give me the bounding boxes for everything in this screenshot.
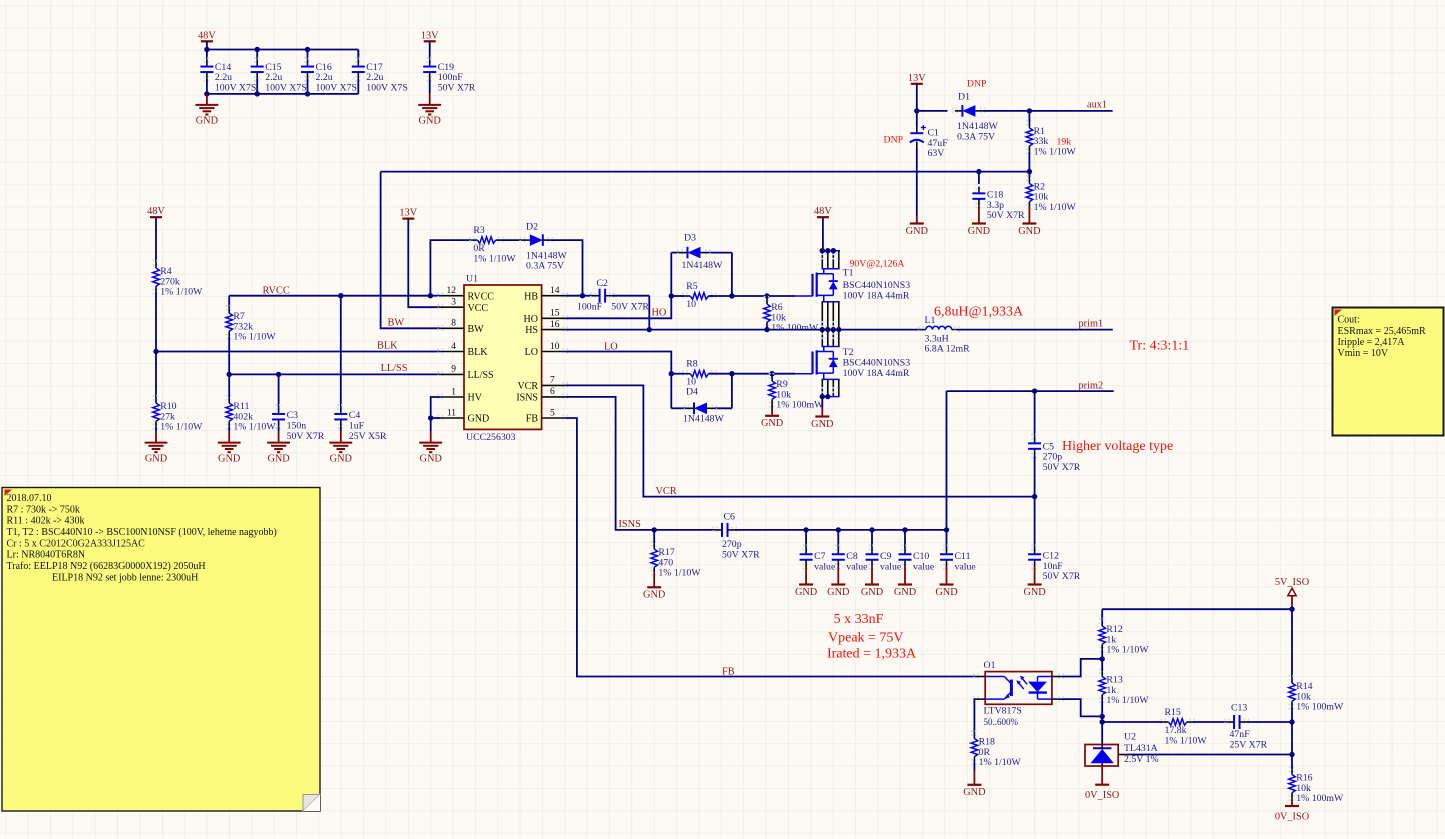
power ground bar GND xyxy=(805,567,807,585)
capacitor C13 xyxy=(1225,719,1229,726)
wire BW long bus xyxy=(381,171,1030,173)
svg-text:1% 1/10W: 1% 1/10W xyxy=(473,254,516,265)
svg-text:value: value xyxy=(814,562,836,573)
wire R12 top xyxy=(1101,609,1103,621)
svg-text:5: 5 xyxy=(550,408,555,418)
junction 5V node xyxy=(1289,607,1294,612)
junction HB node xyxy=(580,293,585,298)
wire C9 top xyxy=(871,530,873,548)
pin 10 LO xyxy=(563,348,567,355)
wire ISNS xyxy=(565,397,715,530)
junction R6/HS node xyxy=(764,327,769,332)
svg-text:HS: HS xyxy=(525,325,538,336)
note (right Cout) xyxy=(1333,308,1444,436)
junction R17 tap xyxy=(652,527,657,532)
svg-text:100V X7S: 100V X7S xyxy=(316,82,357,93)
wire HS long xyxy=(565,329,920,331)
ground (earth) xyxy=(155,432,157,443)
wire 13V to VCC pin xyxy=(408,219,440,308)
svg-text:48V: 48V xyxy=(814,206,832,217)
svg-text:12: 12 xyxy=(447,286,457,296)
stub xyxy=(1291,707,1293,722)
svg-text:value: value xyxy=(913,562,935,573)
wire D3 right riser xyxy=(731,253,733,296)
resistor R12 xyxy=(1099,619,1106,623)
wire D3 left riser xyxy=(670,253,672,296)
junction HV/GND node xyxy=(428,415,433,420)
svg-text:O1: O1 xyxy=(984,660,996,671)
power ground bar GND xyxy=(946,567,948,585)
svg-text:GND: GND xyxy=(968,226,991,237)
pin 11 GND xyxy=(438,415,442,422)
svg-text:VCR: VCR xyxy=(656,486,677,497)
op-amp U1 UCC256303 body xyxy=(464,285,542,429)
svg-text:GND: GND xyxy=(894,587,917,598)
svg-text:GND: GND xyxy=(963,787,986,798)
wire C4 bottom xyxy=(340,426,342,431)
svg-text:16: 16 xyxy=(550,320,560,330)
wire R15 to C13 xyxy=(1192,721,1227,723)
power ground bar GND xyxy=(1028,207,1030,224)
junction R6 tap xyxy=(764,293,769,298)
svg-text:GND: GND xyxy=(420,453,443,464)
junction BLK tap xyxy=(153,349,158,354)
wire R12 bottom xyxy=(1101,650,1103,659)
wire LL/SS xyxy=(229,373,440,375)
svg-text:GND: GND xyxy=(795,587,818,598)
junction R1/R2 node xyxy=(1027,169,1032,174)
svg-text:GND: GND xyxy=(643,590,666,601)
wire C2 to HS riser xyxy=(612,295,649,297)
ground (earth) xyxy=(228,432,230,443)
svg-text:GND: GND xyxy=(145,453,168,464)
svg-text:GND: GND xyxy=(267,453,290,464)
svg-text:D2: D2 xyxy=(526,222,538,233)
resistor R5 xyxy=(683,293,687,300)
svg-text:GND: GND xyxy=(827,587,850,598)
svg-text:R7 : 730k -> 750k: R7 : 730k -> 750k xyxy=(7,504,80,515)
junction opto cathode node xyxy=(1100,714,1105,719)
svg-text:1% 1/10W: 1% 1/10W xyxy=(1165,735,1208,746)
svg-text:GND: GND xyxy=(419,116,442,127)
power ground bar GND xyxy=(871,567,873,585)
svg-text:D4: D4 xyxy=(686,387,698,398)
svg-text:Irated = 1,933A: Irated = 1,933A xyxy=(827,647,917,662)
wire D3 to riser xyxy=(708,252,732,254)
svg-text:GND: GND xyxy=(330,453,353,464)
resistor R3 xyxy=(470,237,474,244)
capacitor C8 xyxy=(835,545,842,549)
svg-text:Higher voltage type: Higher voltage type xyxy=(1062,439,1173,454)
note (left changelog) xyxy=(2,488,320,812)
svg-text:GND: GND xyxy=(1018,226,1041,237)
svg-text:2.5V 1%: 2.5V 1% xyxy=(1124,754,1159,765)
svg-text:C2: C2 xyxy=(597,278,609,289)
svg-text:DNP: DNP xyxy=(967,78,987,89)
svg-text:8: 8 xyxy=(451,319,456,329)
svg-text:10: 10 xyxy=(686,299,696,310)
wire prim1 xyxy=(957,329,1113,331)
junction R9 tap xyxy=(769,371,774,376)
svg-text:VCR: VCR xyxy=(517,381,538,392)
wire C15 bottom lead xyxy=(256,79,258,94)
power port 13V xyxy=(911,83,923,85)
wire to T2 gate xyxy=(732,373,795,375)
junction aux1/R1 node xyxy=(1027,108,1032,113)
wire 13V stem xyxy=(916,84,918,111)
wire 13V to C19 xyxy=(429,41,431,59)
stub xyxy=(771,405,773,408)
resistor R7 xyxy=(226,306,233,310)
wire C13 to divider xyxy=(1246,721,1292,723)
svg-text:13V: 13V xyxy=(421,30,439,41)
svg-text:1% 100mW: 1% 100mW xyxy=(1296,702,1344,713)
svg-text:100V X7S: 100V X7S xyxy=(215,82,256,93)
svg-text:VCC: VCC xyxy=(468,303,489,314)
junction xyxy=(831,248,836,253)
resistor R10 xyxy=(153,396,160,400)
svg-text:LL/SS: LL/SS xyxy=(468,370,494,381)
capacitor C16 xyxy=(304,58,311,62)
svg-text:DNP: DNP xyxy=(884,135,904,146)
junction xyxy=(820,394,825,399)
optocoupler O1 LTV817S xyxy=(985,672,1052,705)
pin 15 HO xyxy=(563,315,567,322)
svg-text:100nF: 100nF xyxy=(577,302,603,313)
junction xyxy=(825,248,830,253)
svg-text:1% 1/10W: 1% 1/10W xyxy=(1106,645,1149,656)
pin 3 VCC xyxy=(438,304,442,311)
junction C4 tap xyxy=(338,293,343,298)
junction gnd bus A xyxy=(204,91,209,96)
svg-text:UCC256303: UCC256303 xyxy=(466,432,516,443)
power ground bar GND xyxy=(837,567,839,585)
wire bottom bus xyxy=(207,93,358,95)
svg-text:FB: FB xyxy=(722,667,735,678)
svg-text:1% 100mW: 1% 100mW xyxy=(771,323,819,334)
wire C1 to GND xyxy=(916,148,918,216)
svg-text:C13: C13 xyxy=(1231,703,1247,714)
wire BLK xyxy=(156,351,440,353)
junction xyxy=(836,527,841,532)
wire HB pin to C2 xyxy=(565,295,593,297)
wire LO xyxy=(565,352,671,374)
svg-text:GND: GND xyxy=(811,419,834,430)
svg-text:13V: 13V xyxy=(399,208,417,219)
svg-text:1% 1/10W: 1% 1/10W xyxy=(1034,202,1077,213)
pin 12 RVCC xyxy=(438,292,442,299)
svg-text:25V X5R: 25V X5R xyxy=(349,431,387,442)
diode D4 xyxy=(684,405,688,412)
junction R3 tap xyxy=(428,293,433,298)
junction R12/R13 node xyxy=(1100,656,1105,661)
svg-text:Iripple = 2,417A: Iripple = 2,417A xyxy=(1338,337,1406,348)
svg-text:50V X7R: 50V X7R xyxy=(287,431,325,442)
junction gate ladder left xyxy=(669,293,674,298)
svg-text:7: 7 xyxy=(550,376,555,386)
wire top bus 48V xyxy=(207,49,358,51)
wire C7 top xyxy=(805,530,807,548)
resistor R4 xyxy=(153,261,160,265)
wire R7 bottom xyxy=(228,337,230,375)
wire R2 top xyxy=(1028,172,1030,179)
inductor L1 xyxy=(919,326,923,333)
wire C16 bottom lead xyxy=(307,79,309,94)
svg-text:6,8uH@1,933A: 6,8uH@1,933A xyxy=(934,304,1024,319)
svg-text:BW: BW xyxy=(388,318,405,329)
junction xyxy=(902,527,907,532)
svg-text:ISNS: ISNS xyxy=(619,519,642,530)
stub xyxy=(771,374,773,376)
wire 48V stem xyxy=(206,41,208,49)
wire R10 to GND xyxy=(155,427,157,432)
resistor R13 xyxy=(1099,669,1106,673)
power ground bar GND xyxy=(1034,567,1036,585)
wire D2 down xyxy=(550,240,582,296)
pin 9 LL/SS xyxy=(438,371,442,378)
resistor R8 xyxy=(683,370,687,377)
junction xyxy=(820,327,825,332)
svg-text:T2: T2 xyxy=(843,347,854,358)
wire HV down xyxy=(431,397,441,418)
svg-text:50V X7R: 50V X7R xyxy=(987,210,1025,221)
svg-text:U2: U2 xyxy=(1124,732,1136,743)
junction xyxy=(836,327,841,332)
pin 4 BLK xyxy=(438,348,442,355)
wire top secondary xyxy=(1102,608,1292,610)
svg-text:BW: BW xyxy=(468,324,485,335)
svg-text:100V 18A 44mR: 100V 18A 44mR xyxy=(843,290,910,301)
svg-text:1: 1 xyxy=(451,387,456,397)
svg-text:D3: D3 xyxy=(684,232,696,243)
capacitor C12 xyxy=(1031,545,1038,549)
svg-text:17.8k: 17.8k xyxy=(1165,725,1187,736)
junction xyxy=(825,394,830,399)
svg-text:EILP18 N92 set jobb lenne: 230: EILP18 N92 set jobb lenne: 2300uH xyxy=(52,572,198,583)
junction xyxy=(803,527,808,532)
wire R1 top xyxy=(1028,111,1030,123)
svg-text:0.3A 75V: 0.3A 75V xyxy=(957,131,995,142)
wire cathode xyxy=(1061,699,1102,716)
svg-text:C6: C6 xyxy=(724,512,736,523)
power ground bar GND xyxy=(978,206,980,224)
capacitor C2 xyxy=(591,292,595,299)
wire D4 to riser xyxy=(715,407,732,409)
stub xyxy=(709,295,732,297)
wire C18 top xyxy=(978,172,980,184)
svg-text:Cr : 5 x C2012C0G2A333J125AC: Cr : 5 x C2012C0G2A333J125AC xyxy=(7,538,146,549)
svg-text:GND: GND xyxy=(196,116,219,127)
power ground bar GND xyxy=(771,408,773,416)
wire R3 left xyxy=(430,240,471,296)
junction ref node xyxy=(1289,752,1294,757)
wire R3-D2 xyxy=(501,239,522,241)
svg-text:GND: GND xyxy=(1023,587,1046,598)
junction gate ladder right xyxy=(729,293,734,298)
svg-text:1% 1/10W: 1% 1/10W xyxy=(233,332,276,343)
junction 13V/D1 node xyxy=(914,108,919,113)
wire HO to gate ladder xyxy=(565,296,671,318)
junction LL/SS left node xyxy=(227,372,232,377)
svg-text:FB: FB xyxy=(526,414,539,425)
svg-text:0R: 0R xyxy=(473,243,485,254)
pin 1 HV xyxy=(438,394,442,401)
pin 7 VCR xyxy=(563,382,567,389)
wire bootstrap vertical xyxy=(648,296,650,330)
wire C16 top lead xyxy=(307,50,309,60)
wire U2 ref xyxy=(1118,754,1127,756)
svg-text:Vpeak = 75V: Vpeak = 75V xyxy=(828,630,904,645)
svg-text:10: 10 xyxy=(550,342,560,352)
capacitor C15 xyxy=(254,58,261,62)
pin 16 HS xyxy=(563,326,567,333)
svg-text:0V_ISO: 0V_ISO xyxy=(1085,790,1120,801)
svg-text:HO: HO xyxy=(652,307,667,318)
svg-text:100V X7S: 100V X7S xyxy=(265,82,306,93)
wire R11 top xyxy=(228,374,230,397)
svg-text:LO: LO xyxy=(525,347,538,358)
capacitor C3 xyxy=(275,405,282,409)
shunt regulator U2 TL431A xyxy=(1085,745,1118,767)
wire R4 to R10 xyxy=(155,292,157,398)
wire to R18 xyxy=(974,699,976,733)
svg-text:1% 1/10W: 1% 1/10W xyxy=(233,422,276,433)
svg-text:48V: 48V xyxy=(147,206,165,217)
power ground bar GND xyxy=(821,408,823,417)
junction R8 left node xyxy=(669,371,674,376)
junction gnd bus C xyxy=(305,91,310,96)
svg-text:14: 14 xyxy=(550,286,560,296)
power port 48V xyxy=(201,40,213,42)
resistor R1 xyxy=(1026,120,1033,124)
svg-text:ISNS: ISNS xyxy=(516,393,538,404)
wire C11 top xyxy=(946,530,948,548)
svg-text:GND: GND xyxy=(935,587,958,598)
svg-text:13V: 13V xyxy=(908,73,926,84)
svg-text:RVCC: RVCC xyxy=(468,291,495,302)
junction C18 tap xyxy=(976,169,981,174)
svg-text:HO: HO xyxy=(524,314,538,325)
pin 5 FB xyxy=(563,415,567,422)
junction xyxy=(825,327,830,332)
diode D2 xyxy=(520,237,524,244)
svg-text:HV: HV xyxy=(468,393,483,404)
ground (earth) xyxy=(429,94,431,105)
wire C1 top xyxy=(916,111,918,127)
wire R1 bottom xyxy=(1028,151,1030,171)
wire RVCC xyxy=(229,295,440,297)
capacitor C9 xyxy=(869,545,876,549)
svg-text:11: 11 xyxy=(447,408,456,418)
svg-text:GND: GND xyxy=(861,587,884,598)
wire C3 top xyxy=(278,374,280,407)
wire to D3 xyxy=(671,252,680,254)
wire C15 top lead xyxy=(256,50,258,60)
wire to T1 gate xyxy=(732,295,795,297)
ground (earth) xyxy=(340,432,342,443)
wire BW vertical to pin 8 xyxy=(381,172,441,329)
svg-text:5 x 33nF: 5 x 33nF xyxy=(834,612,884,627)
power port 13V xyxy=(424,40,436,42)
capacitor C5 xyxy=(1031,435,1038,439)
svg-text:Tr: 4:3:1:1: Tr: 4:3:1:1 xyxy=(1130,339,1190,354)
resistor R6 xyxy=(764,297,771,301)
stub xyxy=(709,373,732,375)
svg-text:25V X7R: 25V X7R xyxy=(1230,740,1268,751)
svg-text:3: 3 xyxy=(451,298,456,308)
svg-text:GND: GND xyxy=(468,414,490,425)
svg-text:R11 : 402k -> 430k: R11 : 402k -> 430k xyxy=(7,516,85,527)
svg-text:1% 1/10W: 1% 1/10W xyxy=(160,287,203,298)
wire T2 source to GND xyxy=(821,397,823,408)
resistor R16 xyxy=(1289,767,1296,771)
resistor R2 xyxy=(1026,176,1033,180)
wire ISNS bus xyxy=(734,529,946,531)
power ground bar GND xyxy=(904,567,906,585)
resistor R14 xyxy=(1289,676,1296,680)
wire R17 top xyxy=(653,530,655,544)
wire R7 top xyxy=(228,296,230,308)
svg-text:prim2: prim2 xyxy=(1079,380,1104,391)
svg-text:1% 1/10W: 1% 1/10W xyxy=(1106,695,1149,706)
svg-text:0.3A 75V: 0.3A 75V xyxy=(526,261,564,272)
wire D4 right riser xyxy=(731,374,733,409)
svg-text:value: value xyxy=(880,562,902,573)
capacitor C19 xyxy=(426,58,433,62)
svg-text:50V X7R: 50V X7R xyxy=(1043,571,1081,582)
svg-text:90V@2,126A: 90V@2,126A xyxy=(850,258,905,269)
capacitor C4 xyxy=(337,405,344,409)
junction xyxy=(831,327,836,332)
svg-text:prim1: prim1 xyxy=(1079,319,1104,330)
wire 48V to T1 drain xyxy=(822,217,824,251)
power port 13V xyxy=(402,218,414,220)
svg-text:100V 18A 44mR: 100V 18A 44mR xyxy=(843,368,910,379)
wire VCR xyxy=(565,385,1034,496)
wire C14 bottom lead xyxy=(206,79,208,94)
resistor R17 xyxy=(651,542,658,546)
svg-text:GND: GND xyxy=(761,418,784,429)
junction VCR/C5/C12 node xyxy=(1032,494,1037,499)
transistor T1 BSC440N10NS3 xyxy=(820,250,840,252)
wire to GND xyxy=(430,418,432,432)
svg-text:50V X7R: 50V X7R xyxy=(722,550,760,561)
wire prim2 vertical xyxy=(946,391,948,530)
junction HS/C2 node xyxy=(647,327,652,332)
wire 13V to D1 xyxy=(917,110,948,112)
junction 48V bus B xyxy=(255,47,260,52)
wire to R14 xyxy=(1291,609,1293,678)
svg-text:Cout:: Cout: xyxy=(1338,315,1360,326)
wire C12 top xyxy=(1034,497,1036,548)
junction xyxy=(820,248,825,253)
junction R15 node xyxy=(1100,719,1105,724)
wire C17 bottom lead xyxy=(357,79,359,94)
wire R13 to U2 xyxy=(1101,700,1103,744)
svg-text:50V X7R: 50V X7R xyxy=(611,302,649,313)
power ground bar GND xyxy=(653,573,655,588)
wire C8 top xyxy=(837,530,839,548)
wire to R15 xyxy=(1102,721,1163,723)
svg-text:LL/SS: LL/SS xyxy=(381,363,408,374)
svg-text:2018.07.10: 2018.07.10 xyxy=(7,493,52,504)
resistor R9 xyxy=(769,374,776,378)
resistor R18 xyxy=(971,731,978,735)
capacitor C10 xyxy=(902,545,909,549)
resistor R11 xyxy=(226,396,233,400)
junction R8 right node xyxy=(729,371,734,376)
svg-text:R5: R5 xyxy=(686,281,698,292)
